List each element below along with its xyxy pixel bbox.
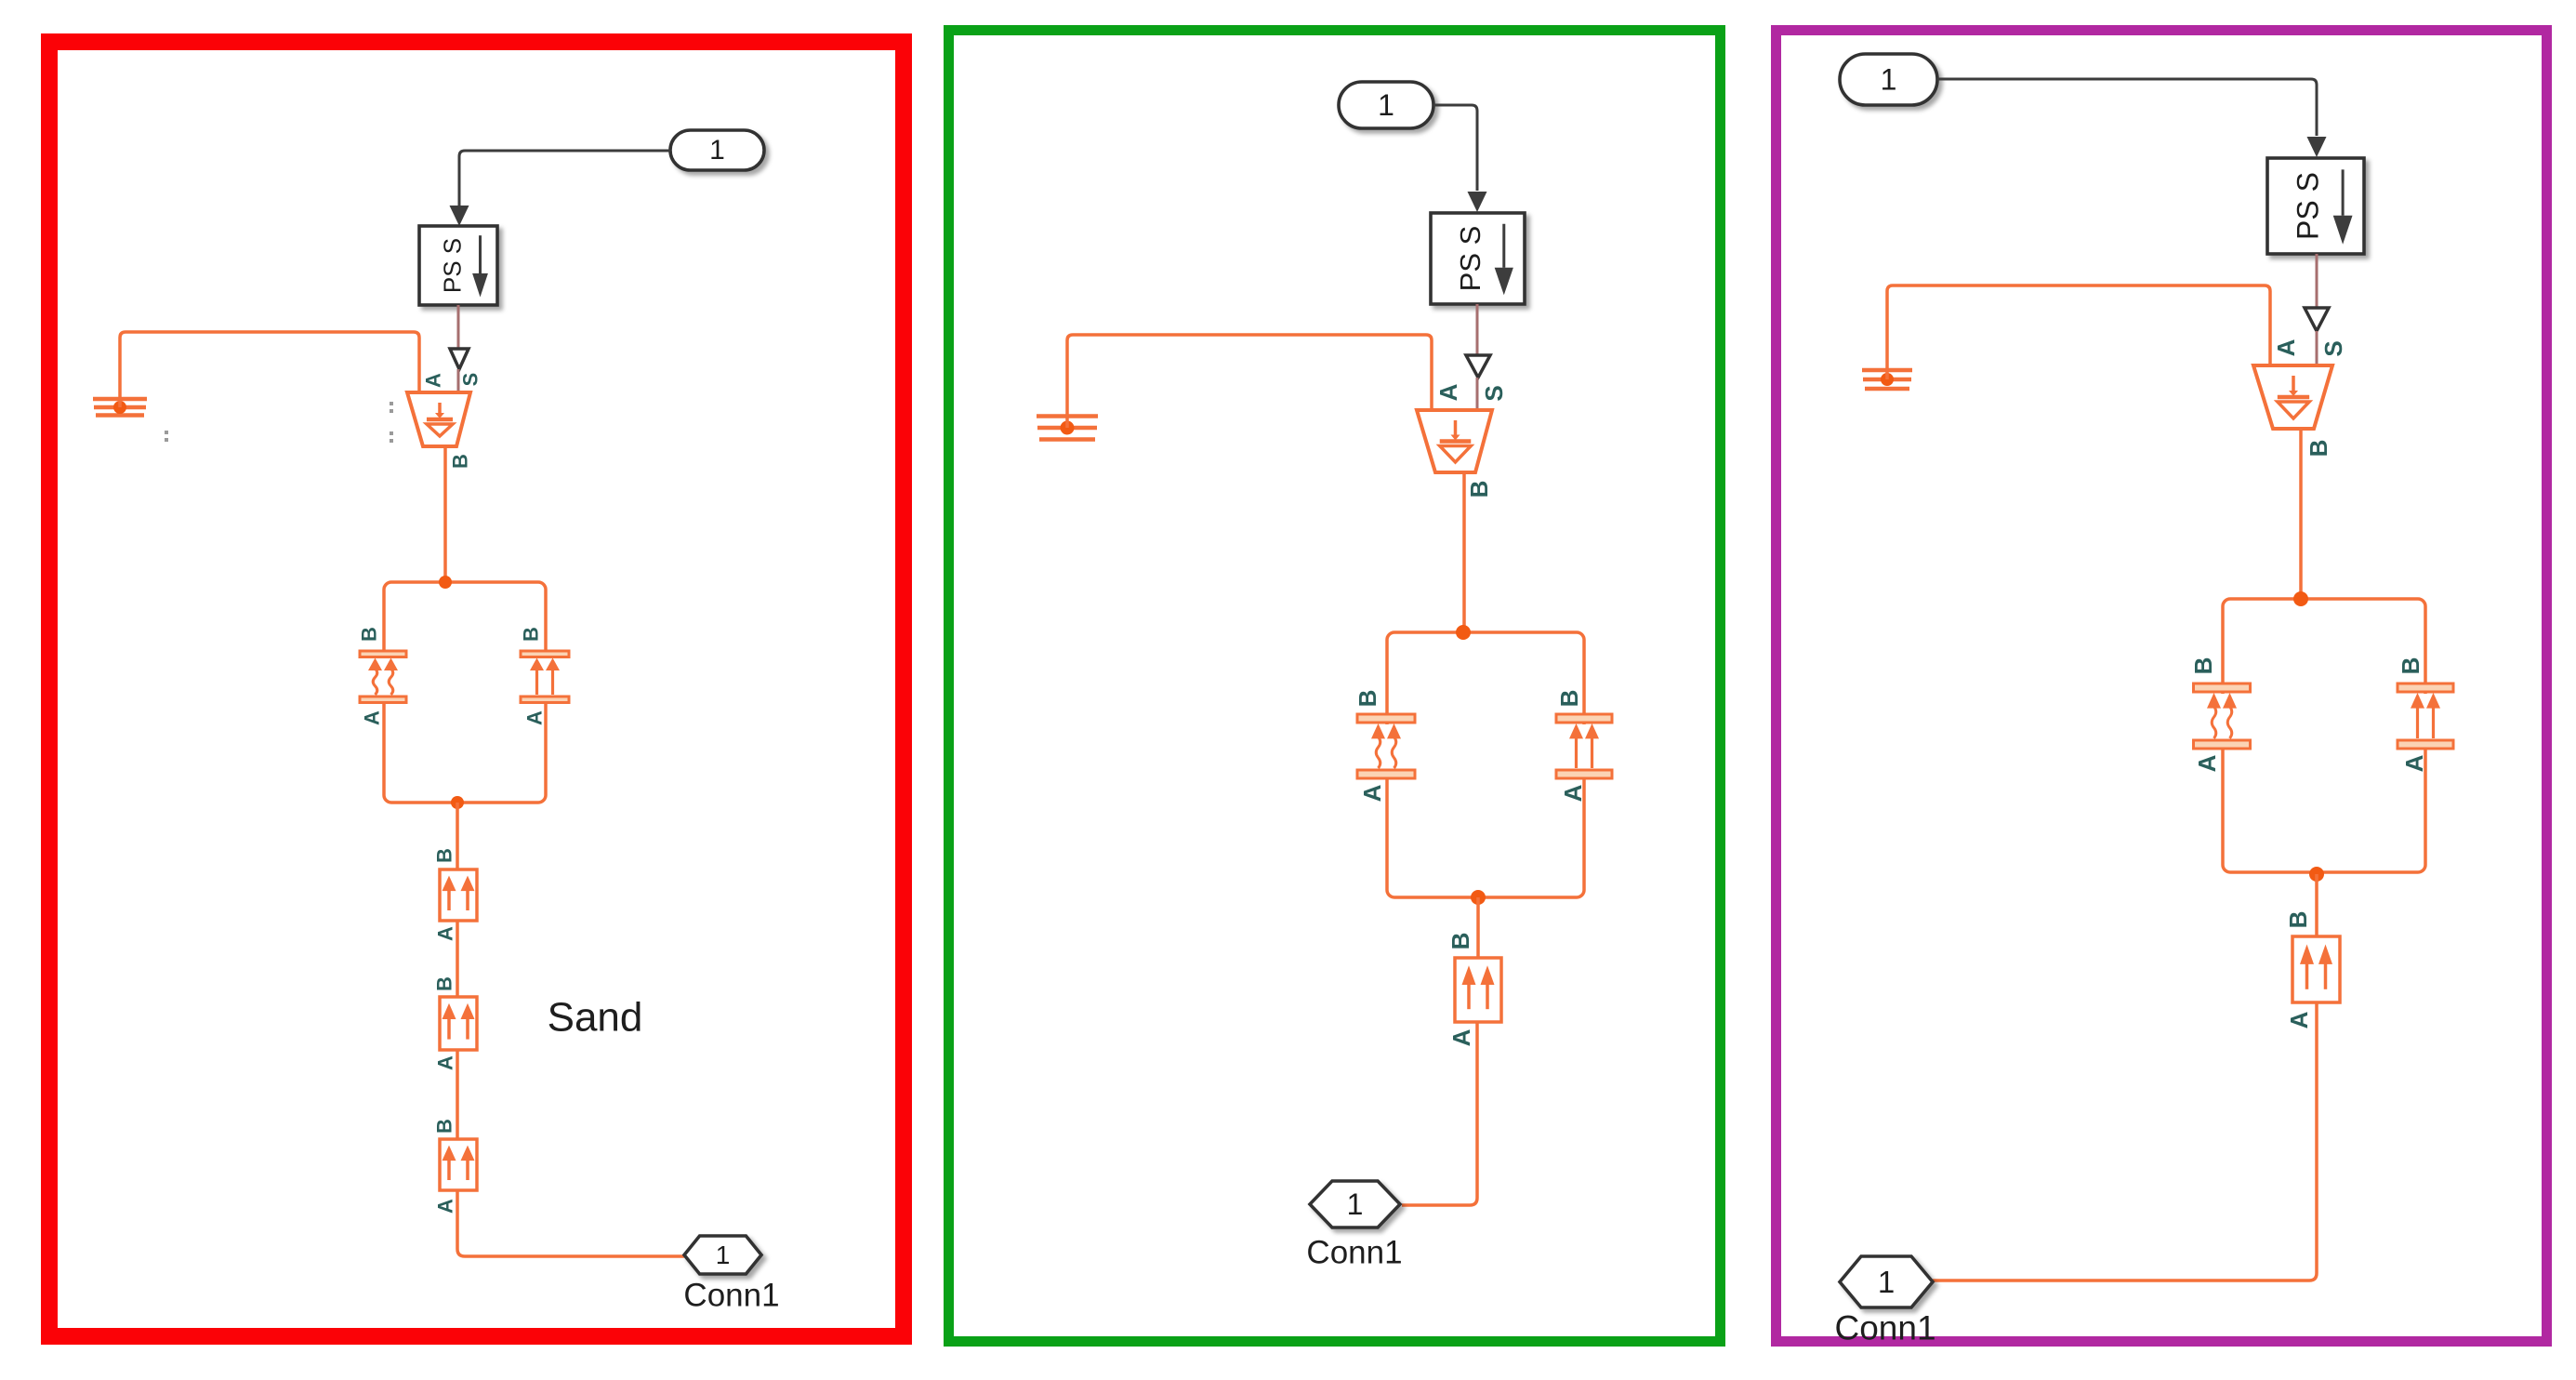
Simulink-PS converter (panel 3) [2267,158,2364,254]
green panel border [949,31,1721,1342]
mechanical reference block (panel 1) [407,392,470,446]
svg-text:A: A [2193,754,2221,772]
mass block 3 (panel 1) [440,1139,477,1190]
svg-text:A: A [523,710,547,725]
svg-text:Conn1: Conn1 [683,1278,779,1314]
svg-text:B: B [433,976,456,991]
PS signal wire (panel 3) [2316,254,2318,308]
inport 1 (panel 2) [1339,82,1433,128]
svg-text:A: A [1434,383,1462,401]
inport 1 (panel 1) [670,130,764,170]
svg-text:B: B [2189,657,2217,675]
svg-text:PS S: PS S [438,238,466,293]
wire ground to port A (panel 1) [120,332,419,407]
svg-text:S: S [2319,340,2347,356]
spring-damper block left (panel 1) [360,651,406,703]
stiction block right (panel 1) [521,651,569,703]
parallel branch loop (panel 2) [1387,632,1584,897]
wire mass 3 to Conn1 (panel 1) [457,1190,684,1256]
svg-text:PS S: PS S [1454,226,1486,292]
svg-text:Sand: Sand [548,995,643,1041]
svg-text:S: S [459,373,482,387]
wire branch to mass (panel 3) [2315,874,2318,936]
red panel border [49,42,904,1336]
svg-text:A: A [2272,338,2300,356]
svg-text:B: B [2305,440,2332,458]
wire branch to mass 1 (panel 1) [456,803,459,869]
wire ground to port A (panel 2) [1067,335,1432,428]
svg-text:A: A [361,710,384,725]
ground (panel 1) [93,399,147,416]
Simulink-PS converter (panel 1) [419,226,497,305]
svg-text:1: 1 [1378,88,1394,122]
svg-text:1: 1 [1881,63,1897,97]
svg-text:A: A [1358,784,1386,802]
wire from inport 1 to converter (panel 1) [459,151,670,206]
svg-text:B: B [449,454,472,469]
mass block (panel 2) [1455,958,1501,1022]
spring-damper block left (panel 2) [1357,714,1415,778]
svg-text:B: B [1354,690,1381,708]
PS signal wire (panel 2) [1476,304,1479,355]
ground (panel 3) [1862,370,1912,389]
annotation dots (panel 1) [165,402,393,443]
svg-text:1: 1 [709,135,725,166]
svg-text:A: A [2400,754,2428,772]
svg-text:B: B [2397,657,2424,675]
solver port arrow (panel 3) [2305,308,2329,331]
svg-text:Conn1: Conn1 [1834,1309,1935,1347]
parallel branch loop (panel 1) [384,582,546,803]
svg-text:B: B [1555,690,1583,708]
ground (panel 2) [1037,417,1098,440]
stiction block right (panel 2) [1556,714,1612,778]
svg-text:A: A [434,1055,457,1070]
PS signal wire (panel 1) [457,305,460,349]
svg-text:Conn1: Conn1 [1306,1235,1402,1271]
wire B to branch (panel 2) [1462,472,1466,632]
connection port Conn1 (panel 2) [1310,1181,1400,1227]
wire mass 2 to mass 3 (panel 1) [456,1050,459,1139]
svg-text:B: B [433,1119,456,1134]
mass block (panel 3) [2292,936,2340,1002]
svg-text:B: B [2284,911,2312,929]
spring-damper block left (panel 3) [2194,683,2251,749]
inport 1 (panel 3) [1840,54,1937,105]
mechanical reference block (panel 2) [1417,410,1492,472]
wire B to branch (panel 3) [2299,429,2303,599]
svg-text:B: B [520,627,543,642]
svg-text:B: B [1465,481,1493,498]
wire ground to port A (panel 3) [1887,285,2270,379]
mechanical reference block (panel 3) [2253,365,2332,429]
wire from inport 1 to converter (panel 3) [1937,79,2317,136]
svg-text:A: A [1447,1028,1475,1046]
mass block 1 (panel 1) [440,869,477,921]
svg-text:B: B [1447,933,1474,950]
svg-text:1: 1 [1878,1265,1895,1299]
svg-text:A: A [434,1199,457,1214]
parallel branch loop (panel 3) [2223,599,2425,872]
mass block 2 (panel 1) [440,997,477,1050]
svg-text:B: B [358,627,381,642]
svg-text:B: B [433,848,456,863]
connection port Conn1 (panel 1) [684,1236,761,1274]
stiction block right (panel 3) [2398,683,2453,749]
wire mass to Conn1 (panel 3) [1933,1002,2317,1280]
wire B to branch (panel 1) [443,446,447,582]
solver port arrow (panel 1) [450,349,469,369]
connection port Conn1 (panel 3) [1840,1256,1933,1307]
wire mass to Conn1 (panel 2) [1402,1022,1477,1205]
svg-text:A: A [2285,1011,2313,1028]
wire mass 1 to mass 2 (panel 1) [456,921,459,997]
svg-text:A: A [434,926,457,941]
purple panel border [1777,31,2547,1342]
svg-text:A: A [422,373,445,388]
svg-text:1: 1 [1347,1188,1364,1221]
Simulink-PS converter (panel 2) [1431,213,1525,304]
svg-text:S: S [1480,385,1508,401]
wire from inport 1 to converter (panel 2) [1433,105,1477,191]
svg-text:1: 1 [716,1241,731,1269]
wire branch to mass (panel 2) [1476,897,1480,958]
svg-text:A: A [1559,784,1587,802]
solver port arrow (panel 2) [1466,355,1490,378]
svg-text:PS S: PS S [2292,172,2325,240]
